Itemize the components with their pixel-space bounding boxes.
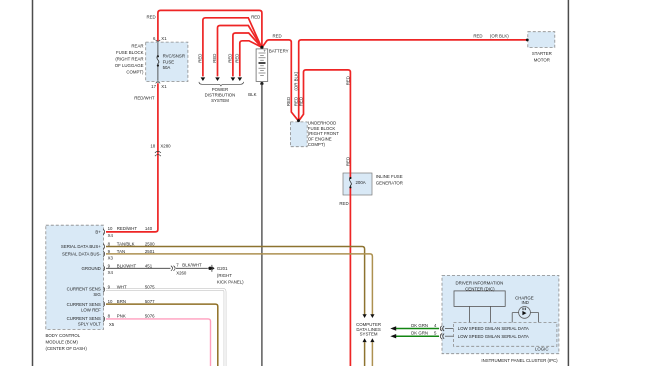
svg-text:SYSTEM: SYSTEM xyxy=(211,98,229,103)
svg-text:INLINE FUSE: INLINE FUSE xyxy=(376,174,403,179)
svg-text:SERIAL DATA BUS+: SERIAL DATA BUS+ xyxy=(61,244,101,249)
svg-text:LOW REF: LOW REF xyxy=(81,308,101,313)
svg-text:X260: X260 xyxy=(176,270,187,275)
svg-text:10: 10 xyxy=(108,299,113,304)
svg-text:RED: RED xyxy=(286,97,291,106)
svg-text:X1: X1 xyxy=(161,36,167,41)
svg-text:MOTOR: MOTOR xyxy=(534,58,550,63)
svg-text:X5: X5 xyxy=(109,322,115,327)
svg-text:RED: RED xyxy=(234,54,239,63)
svg-text:140: 140 xyxy=(145,226,153,231)
svg-text:LOW SPEED GMLAN SERIAL DATA: LOW SPEED GMLAN SERIAL DATA xyxy=(458,326,529,331)
svg-text:(RIGHT: (RIGHT xyxy=(217,273,232,278)
svg-text:MODULE (BCM): MODULE (BCM) xyxy=(46,340,79,345)
svg-text:RED: RED xyxy=(345,76,350,85)
svg-text:TAN: TAN xyxy=(117,249,125,254)
svg-text:STARTER: STARTER xyxy=(532,51,552,56)
svg-text:451: 451 xyxy=(145,263,153,268)
svg-text:X1: X1 xyxy=(161,84,167,89)
svg-text:X3: X3 xyxy=(108,256,114,261)
svg-text:FUSE: FUSE xyxy=(163,59,175,64)
svg-text:POWER: POWER xyxy=(212,87,228,92)
svg-text:10: 10 xyxy=(108,226,113,231)
svg-text:GENERATOR: GENERATOR xyxy=(376,180,403,185)
svg-text:RED: RED xyxy=(473,34,482,39)
svg-text:BLK/WHT: BLK/WHT xyxy=(117,263,137,268)
svg-text:2500: 2500 xyxy=(145,242,155,247)
svg-text:OF LUGGAGE: OF LUGGAGE xyxy=(115,63,144,68)
svg-text:(CENTER OF DASH): (CENTER OF DASH) xyxy=(46,346,88,351)
svg-text:BATTERY: BATTERY xyxy=(269,48,289,53)
svg-text:SERIAL DATA BUS-: SERIAL DATA BUS- xyxy=(62,252,101,257)
svg-text:SPLY VOLT: SPLY VOLT xyxy=(78,322,101,327)
svg-text:RED/WHT: RED/WHT xyxy=(117,226,138,231)
svg-text:5075: 5075 xyxy=(145,284,155,289)
svg-text:(OR BLK): (OR BLK) xyxy=(490,34,509,39)
svg-text:X4: X4 xyxy=(108,233,114,238)
svg-text:RED: RED xyxy=(147,15,156,20)
svg-text:FUSE BLOCK: FUSE BLOCK xyxy=(308,126,336,131)
svg-text:COMPT): COMPT) xyxy=(308,142,326,147)
svg-text:LOGIC: LOGIC xyxy=(535,346,549,351)
svg-text:BRN: BRN xyxy=(117,299,126,304)
svg-text:5076: 5076 xyxy=(145,314,155,319)
svg-text:5077: 5077 xyxy=(145,299,155,304)
svg-text:X280: X280 xyxy=(160,143,171,148)
svg-text:CENTER (DIC): CENTER (DIC) xyxy=(465,287,495,292)
svg-text:CURRENT SENS: CURRENT SENS xyxy=(67,302,101,307)
svg-text:DISTRIBUTION: DISTRIBUTION xyxy=(205,93,236,98)
svg-text:UNDERHOOD: UNDERHOOD xyxy=(308,120,336,125)
svg-text:WHT: WHT xyxy=(117,284,127,289)
svg-text:CURRENT SENS: CURRENT SENS xyxy=(67,287,101,292)
svg-text:INSTRUMENT PANEL CLUSTER (IPC): INSTRUMENT PANEL CLUSTER (IPC) xyxy=(481,358,558,363)
svg-text:CURRENT SENS: CURRENT SENS xyxy=(67,316,101,321)
svg-text:REAR: REAR xyxy=(131,44,143,49)
svg-text:G201: G201 xyxy=(217,266,228,271)
svg-text:KICK PANEL): KICK PANEL) xyxy=(217,280,244,285)
svg-text:200A: 200A xyxy=(356,180,366,185)
svg-text:DRIVER INFORMATION: DRIVER INFORMATION xyxy=(456,281,504,286)
svg-text:DK GRN: DK GRN xyxy=(411,331,428,336)
svg-text:RED: RED xyxy=(227,54,232,63)
svg-text:18: 18 xyxy=(150,143,155,148)
svg-text:2501: 2501 xyxy=(145,249,155,254)
svg-text:B+: B+ xyxy=(95,230,101,235)
svg-text:BLK: BLK xyxy=(248,92,256,97)
svg-text:17: 17 xyxy=(151,84,156,89)
svg-text:+: + xyxy=(263,48,266,53)
svg-text:RED: RED xyxy=(251,15,260,20)
svg-text:SIG: SIG xyxy=(93,292,101,297)
svg-text:BODY CONTROL: BODY CONTROL xyxy=(46,333,81,338)
svg-text:RED: RED xyxy=(197,54,202,63)
svg-text:LOW SPEED GMLAN SERIAL DATA: LOW SPEED GMLAN SERIAL DATA xyxy=(458,334,529,339)
svg-text:50A: 50A xyxy=(163,65,171,70)
svg-text:(RIGHT REAR: (RIGHT REAR xyxy=(115,57,143,62)
svg-text:OF ENGINE: OF ENGINE xyxy=(308,137,332,142)
svg-text:COMPT): COMPT) xyxy=(126,70,144,75)
svg-text:RED: RED xyxy=(339,201,348,206)
svg-text:RVC/SNSR: RVC/SNSR xyxy=(163,54,185,59)
svg-text:GROUND: GROUND xyxy=(81,266,100,271)
svg-text:FUSE BLOCK: FUSE BLOCK xyxy=(116,50,144,55)
svg-text:DK GRN: DK GRN xyxy=(411,323,428,328)
svg-text:SYSTEM: SYSTEM xyxy=(360,332,378,337)
svg-text:BLK/WHT: BLK/WHT xyxy=(182,263,202,268)
svg-text:RED: RED xyxy=(299,97,304,106)
svg-text:IND: IND xyxy=(521,300,528,305)
svg-text:RED: RED xyxy=(345,157,350,166)
svg-text:PNK: PNK xyxy=(117,314,126,319)
svg-text:RED: RED xyxy=(273,34,282,39)
svg-text:RED/WHT: RED/WHT xyxy=(134,96,155,101)
svg-text:RED: RED xyxy=(212,54,217,63)
svg-text:(OR BLK): (OR BLK) xyxy=(294,71,299,90)
svg-text:X4: X4 xyxy=(108,270,114,275)
svg-text:TAN/BLK: TAN/BLK xyxy=(117,242,135,247)
svg-text:(RIGHT FRONT: (RIGHT FRONT xyxy=(308,131,339,136)
